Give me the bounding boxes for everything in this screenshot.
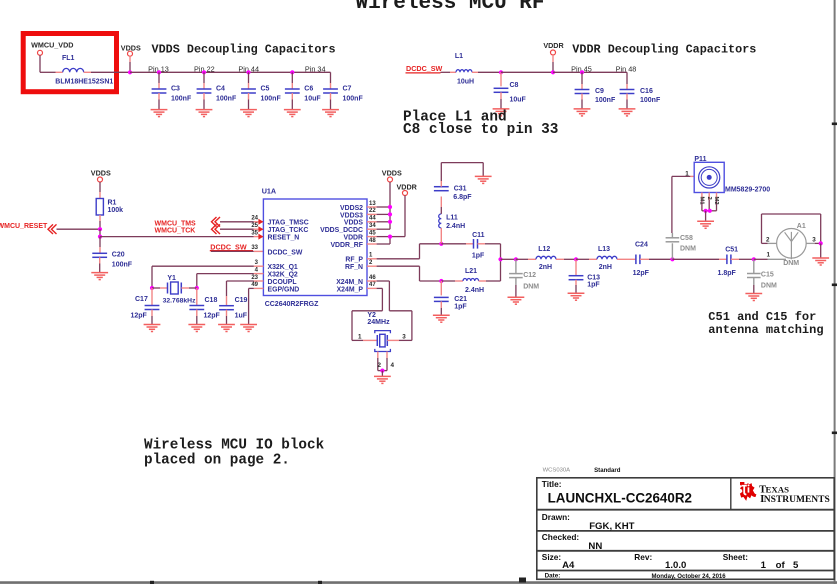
svg-text:L11: L11 <box>446 214 458 221</box>
capacitor C58 DNM <box>666 233 697 259</box>
svg-text:49: 49 <box>251 282 258 288</box>
svg-text:WMCU_RESET: WMCU_RESET <box>0 223 48 230</box>
power symbol VDDS <box>128 51 133 56</box>
svg-text:DCDC_SW: DCDC_SW <box>406 64 443 73</box>
junction VDDR pins <box>388 235 392 239</box>
svg-text:X32K_Q2: X32K_Q2 <box>268 272 298 279</box>
svg-text:C8 close to pin 33: C8 close to pin 33 <box>403 122 558 138</box>
svg-text:Sheet:: Sheet: <box>723 552 748 562</box>
svg-text:C20: C20 <box>112 251 125 258</box>
inductor L12 <box>516 246 564 271</box>
P11 shield pins M1 2 M2 <box>698 193 719 211</box>
svg-text:C18: C18 <box>205 297 218 304</box>
junction balun output <box>498 257 502 261</box>
svg-text:Checked:: Checked: <box>542 532 579 542</box>
svg-text:47: 47 <box>369 282 376 288</box>
junction C58 node <box>670 257 674 261</box>
inductor L1 <box>450 71 456 73</box>
svg-text:2.4nH: 2.4nH <box>465 287 484 294</box>
ground C9 <box>574 109 591 116</box>
svg-text:Monday, October 24, 2016: Monday, October 24, 2016 <box>652 574 727 580</box>
svg-text:2: 2 <box>706 197 712 200</box>
svg-text:C13: C13 <box>587 274 600 281</box>
wire R1 to reset node <box>99 215 101 221</box>
svg-text:Pin 34: Pin 34 <box>305 64 326 73</box>
svg-text:VDDR Decoupling Capacitors: VDDR Decoupling Capacitors <box>572 43 756 57</box>
ground C15 <box>745 294 762 301</box>
svg-text:Pin 48: Pin 48 <box>616 65 637 74</box>
svg-text:C24: C24 <box>635 242 648 249</box>
svg-text:1.0.0: 1.0.0 <box>665 560 686 571</box>
svg-text:LAUNCHXL-CC2640R2: LAUNCHXL-CC2640R2 <box>548 490 692 505</box>
wire P11 shield to ground <box>705 211 707 222</box>
capacitor C31 <box>434 163 472 214</box>
svg-text:Y1: Y1 <box>167 275 176 282</box>
svg-text:4: 4 <box>391 362 395 369</box>
ground EGP/GND <box>240 325 257 332</box>
ground C16 <box>619 109 636 116</box>
junction VDDR rail <box>551 70 555 74</box>
svg-text:100nF: 100nF <box>171 96 192 103</box>
svg-text:DNM: DNM <box>761 282 777 289</box>
border tick marks <box>150 123 837 584</box>
svg-text:Rev:: Rev: <box>634 552 652 562</box>
svg-text:C4: C4 <box>216 86 225 93</box>
svg-text:100nF: 100nF <box>216 96 237 103</box>
svg-text:2: 2 <box>378 362 382 369</box>
junction C8 node <box>499 70 503 74</box>
U1A right pin numbers <box>369 201 376 288</box>
junction antenna pin 3 <box>815 242 821 244</box>
inductor L21 <box>441 268 500 294</box>
junction C13 node <box>574 257 578 261</box>
svg-text:Size:: Size: <box>542 552 561 562</box>
svg-text:EXAS: EXAS <box>766 485 790 495</box>
wire pin 48 <box>367 243 377 245</box>
logo Texas Instruments <box>740 482 830 505</box>
svg-text:10uF: 10uF <box>304 96 321 103</box>
svg-text:DCOUPL: DCOUPL <box>268 279 297 286</box>
title block texts <box>542 479 799 580</box>
svg-text:3: 3 <box>812 236 816 243</box>
svg-text:1: 1 <box>766 252 770 259</box>
svg-text:placed on page 2.: placed on page 2. <box>144 452 290 468</box>
svg-text:VDDR_RF: VDDR_RF <box>330 242 363 249</box>
wire pin row 2 <box>367 221 377 223</box>
inductor L13 <box>576 246 625 271</box>
svg-text:VDDS3: VDDS3 <box>340 212 363 219</box>
wire Y2 case pins <box>377 352 379 359</box>
wire VDDR rail <box>553 71 627 73</box>
antenna pin 2 stub <box>768 242 777 244</box>
wire RF_P to balun <box>367 258 377 260</box>
ground C31 <box>475 176 492 183</box>
svg-text:M2: M2 <box>713 197 719 205</box>
capacitor C12 DNM <box>509 259 539 297</box>
junction balun bottom <box>439 279 443 283</box>
svg-text:WMCU_TCK: WMCU_TCK <box>155 227 196 234</box>
svg-text:2: 2 <box>766 236 770 243</box>
svg-text:Title:: Title: <box>542 479 562 489</box>
svg-text:1pF: 1pF <box>587 281 600 288</box>
svg-text:VDDS: VDDS <box>91 168 111 177</box>
wire C31 to ground <box>441 162 483 164</box>
svg-text:10uF: 10uF <box>510 97 527 104</box>
svg-text:DNM: DNM <box>783 260 799 267</box>
capacitor C15 DNM <box>747 259 777 293</box>
svg-text:1.8pF: 1.8pF <box>718 270 737 277</box>
svg-text:RF_P: RF_P <box>345 257 363 264</box>
antenna A1 DNM <box>777 223 807 267</box>
power symbol VDDR top <box>551 50 556 55</box>
wire C8 node to VDDR node <box>501 71 553 73</box>
crystal Y1 32.768kHz <box>152 275 197 304</box>
ferrite bead FL1 <box>56 71 63 73</box>
junction Y1 left <box>150 286 154 290</box>
svg-text:Wireless MCU IO block: Wireless MCU IO block <box>144 437 325 453</box>
wire WMCU_RESET <box>57 228 101 230</box>
wire pin 3 to Y1 left <box>254 265 264 267</box>
ground antenna <box>812 258 829 265</box>
wire reset node down <box>99 229 101 236</box>
svg-text:100nF: 100nF <box>261 96 282 103</box>
ground C5 <box>240 110 257 117</box>
ground C17 <box>144 325 161 332</box>
red highlight box around FL1 <box>23 34 116 92</box>
connector P11 MM5829-2700 <box>685 156 770 194</box>
wire pin 45 <box>367 236 377 238</box>
wire pin 4 to Y1 right <box>254 273 264 275</box>
svg-text:WCS030A: WCS030A <box>543 468 571 474</box>
ground C4 <box>196 110 213 117</box>
svg-text:C11: C11 <box>472 232 485 239</box>
svg-text:2nH: 2nH <box>539 264 552 271</box>
svg-text:C19: C19 <box>235 297 248 304</box>
capacitor C17 <box>131 288 160 325</box>
capacitor C18 <box>189 288 220 325</box>
offpage arrow WMCU_RESET <box>48 224 57 234</box>
capacitor C6 <box>285 70 321 109</box>
svg-text:C6: C6 <box>304 86 313 93</box>
svg-text:EGP/GND: EGP/GND <box>268 286 300 293</box>
mcu U1A CC2640R2FRGZ <box>262 187 367 308</box>
svg-text:X24M_P: X24M_P <box>337 286 364 293</box>
ground C8 <box>493 109 510 116</box>
svg-text:3: 3 <box>402 334 406 341</box>
svg-text:A4: A4 <box>562 560 575 571</box>
svg-text:M1: M1 <box>698 197 704 206</box>
wire reset to RESET_N pin <box>100 236 254 238</box>
svg-text:P11: P11 <box>694 156 706 163</box>
svg-text:L12: L12 <box>538 246 550 253</box>
svg-text:C9: C9 <box>595 88 604 95</box>
ground C12 <box>508 297 525 304</box>
svg-text:C21: C21 <box>454 296 467 303</box>
svg-text:100nF: 100nF <box>595 97 616 104</box>
svg-text:C51: C51 <box>725 246 738 253</box>
svg-text:Date:: Date: <box>545 572 561 579</box>
svg-text:VDDR: VDDR <box>543 41 564 50</box>
svg-text:C15: C15 <box>761 271 774 278</box>
wire WMCU_TCK to pin 25 <box>220 228 254 230</box>
junction reset node A <box>98 227 102 231</box>
svg-text:L13: L13 <box>598 246 610 253</box>
junction Y2 ground <box>380 369 384 373</box>
capacitor C21 <box>434 281 467 315</box>
svg-text:C7: C7 <box>343 86 352 93</box>
svg-text:1: 1 <box>685 171 689 178</box>
svg-text:24: 24 <box>251 216 258 222</box>
capacitor C19 <box>219 296 248 325</box>
svg-text:C8: C8 <box>510 82 519 89</box>
svg-text:Drawn:: Drawn: <box>542 512 570 522</box>
wire pin row 0 <box>367 206 377 208</box>
svg-text:MM5829-2700: MM5829-2700 <box>725 187 770 194</box>
junction VDDS pins <box>388 205 392 209</box>
wire VDDR vertical <box>404 196 406 237</box>
U1A input arrows JTAG/RESET <box>258 219 263 240</box>
svg-text:VDDS: VDDS <box>344 220 364 227</box>
capacitor C4 <box>197 70 237 109</box>
svg-text:RESET_N: RESET_N <box>268 235 300 242</box>
junction P11 shield B <box>708 209 712 213</box>
svg-text:C51 and C15 for: C51 and C15 for <box>708 310 816 324</box>
offpage arrow WMCU_TMS <box>212 217 221 227</box>
wire DCDC_SW to L1 <box>441 71 451 73</box>
wire balun to C12 node <box>501 258 516 260</box>
wire L1 to C8 node <box>478 71 501 73</box>
junction VDDS rail <box>128 70 132 74</box>
wire balun output <box>500 244 502 281</box>
svg-text:X32K_Q1: X32K_Q1 <box>268 264 298 271</box>
svg-text:of: of <box>776 560 786 571</box>
capacitor C5 <box>241 70 281 109</box>
svg-text:34: 34 <box>369 223 376 229</box>
ground Y2 <box>374 376 391 383</box>
ground P11 <box>697 221 714 228</box>
sheet bottom border <box>0 581 837 584</box>
wire L12 to C13 node <box>564 258 576 260</box>
resistor R1 <box>96 199 123 216</box>
capacitor C51 <box>672 246 753 276</box>
svg-text:6.8pF: 6.8pF <box>453 194 472 201</box>
svg-text:5: 5 <box>793 560 799 571</box>
wire WMCU_VDD to FL1 <box>39 55 41 72</box>
svg-text:CC2640R2FRGZ: CC2640R2FRGZ <box>265 301 319 308</box>
capacitor C9 <box>575 70 616 109</box>
wire pin 23 to C19 <box>254 280 264 282</box>
svg-text:1pF: 1pF <box>472 253 485 260</box>
sheet right border <box>834 0 836 584</box>
svg-text:R1: R1 <box>108 199 117 206</box>
svg-text:C31: C31 <box>454 185 467 192</box>
antenna pin 3 stub <box>806 242 815 244</box>
power symbol VDDS above U1A <box>388 177 393 182</box>
ground C13 <box>568 293 585 300</box>
svg-text:DCDC_SW: DCDC_SW <box>210 242 247 251</box>
svg-text:1: 1 <box>358 334 362 341</box>
wire pin 47 to Y2 <box>367 287 377 289</box>
svg-text:C17: C17 <box>135 296 148 303</box>
svg-text:FL1: FL1 <box>62 55 75 62</box>
svg-text:VDDS Decoupling Capacitors: VDDS Decoupling Capacitors <box>152 43 336 57</box>
junction P11 shield A <box>704 209 708 213</box>
junction Y1 right <box>195 286 199 290</box>
svg-text:JTAG_TCKC: JTAG_TCKC <box>268 227 309 234</box>
junction balun top <box>439 242 443 246</box>
capacitor C13 <box>569 259 601 293</box>
svg-text:A1: A1 <box>797 223 806 230</box>
svg-text:12pF: 12pF <box>204 313 221 320</box>
svg-text:C5: C5 <box>261 86 270 93</box>
svg-text:VDDS_DCDC: VDDS_DCDC <box>320 227 363 234</box>
svg-text:C12: C12 <box>523 272 536 279</box>
wire VDDS vertical <box>389 182 391 229</box>
capacitor C20 <box>92 251 132 272</box>
svg-text:100k: 100k <box>108 207 124 214</box>
svg-text:C3: C3 <box>171 86 180 93</box>
svg-text:33: 33 <box>251 245 258 251</box>
svg-text:46: 46 <box>369 275 376 281</box>
svg-text:NSTRUMENTS: NSTRUMENTS <box>764 495 830 505</box>
ground C3 <box>151 110 168 117</box>
capacitor C24 <box>625 242 672 278</box>
svg-text:45: 45 <box>369 230 376 236</box>
capacitor C3 <box>152 70 192 109</box>
U1A left pin numbers <box>251 216 258 289</box>
junction C12 node <box>514 257 518 261</box>
inductor L11 <box>439 214 465 244</box>
svg-text:48: 48 <box>369 238 376 244</box>
capacitor C11 <box>441 232 500 260</box>
wire C58 to P11 <box>671 176 673 233</box>
wire FL1 to VDDS node <box>91 71 130 73</box>
wire pin row 1 <box>367 213 377 215</box>
svg-text:VDDS2: VDDS2 <box>340 205 363 212</box>
capacitor C16 <box>620 72 661 109</box>
svg-text:WMCU_VDD: WMCU_VDD <box>31 40 73 49</box>
svg-text:X24M_N: X24M_N <box>336 279 363 286</box>
svg-text:1uF: 1uF <box>235 313 248 320</box>
wire pin 46 to Y2 <box>367 280 377 282</box>
wire antenna to ground <box>820 243 822 258</box>
svg-text:U1A: U1A <box>262 187 276 196</box>
ground C19 <box>218 325 235 332</box>
wire pin 49 to ground <box>254 287 264 289</box>
svg-text:23: 23 <box>251 275 258 281</box>
svg-text:L1: L1 <box>455 53 463 60</box>
ground C21 <box>433 315 450 322</box>
wire antenna loop <box>762 242 768 244</box>
svg-text:100nF: 100nF <box>640 97 661 104</box>
U1A right pin names <box>320 205 363 293</box>
ground C6 <box>284 110 301 117</box>
svg-text:100nF: 100nF <box>343 96 364 103</box>
svg-text:C58: C58 <box>680 235 693 242</box>
svg-text:RF_N: RF_N <box>345 264 363 271</box>
svg-text:VDDR: VDDR <box>343 235 363 242</box>
power symbol VDDR above U1A <box>403 191 408 196</box>
svg-text:BLM18HE152SN1: BLM18HE152SN1 <box>55 79 113 86</box>
svg-text:antenna matching: antenna matching <box>708 323 823 337</box>
power symbol VDDS above R1 <box>98 177 103 182</box>
junction C15 node <box>752 257 756 261</box>
svg-text:100nF: 100nF <box>112 262 133 269</box>
svg-text:25: 25 <box>251 223 258 229</box>
svg-text:44: 44 <box>369 216 376 222</box>
svg-text:2.4nH: 2.4nH <box>446 223 465 230</box>
capacitor C7 <box>323 72 363 109</box>
svg-text:DNM: DNM <box>680 245 696 252</box>
wire WMCU_TMS to pin 24 <box>220 221 254 223</box>
wire DCDC_SW to pin 33 <box>211 250 254 252</box>
title block table <box>537 478 834 580</box>
svg-text:12pF: 12pF <box>633 270 650 277</box>
offpage arrow WMCU_TCK <box>212 224 221 234</box>
wire VDDS down to rail <box>129 56 131 62</box>
svg-text:Standard: Standard <box>594 467 621 474</box>
U1A left pin names <box>268 220 309 294</box>
svg-text:1: 1 <box>761 560 767 571</box>
wire pin row 3 <box>367 228 377 230</box>
wire VDDS to R1 <box>99 182 101 192</box>
svg-text:VDDS: VDDS <box>382 169 402 178</box>
svg-text:22: 22 <box>369 208 376 214</box>
svg-text:VDDR: VDDR <box>397 182 418 191</box>
ground C20 <box>91 273 108 280</box>
wire reset node to C20 <box>99 237 101 247</box>
svg-text:L21: L21 <box>465 268 477 275</box>
svg-text:24MHz: 24MHz <box>367 319 390 326</box>
capacitor C8 <box>494 72 527 109</box>
svg-text:DCDC_SW: DCDC_SW <box>268 249 303 256</box>
svg-text:12pF: 12pF <box>131 313 148 320</box>
wire VDDS rail <box>130 71 331 73</box>
svg-text:NN: NN <box>588 541 602 552</box>
svg-text:C16: C16 <box>640 88 653 95</box>
ground C7 <box>322 110 339 117</box>
svg-text:FGK, KHT: FGK, KHT <box>589 521 634 532</box>
svg-text:2nH: 2nH <box>599 264 612 271</box>
crystal Y2 24MHz <box>352 312 412 351</box>
svg-text:Wireless MCU RF: Wireless MCU RF <box>355 0 544 15</box>
svg-text:10uH: 10uH <box>457 79 474 86</box>
svg-text:32.768kHz: 32.768kHz <box>163 297 196 304</box>
wire C15 node to antenna <box>754 258 768 260</box>
ground C18 <box>188 325 205 332</box>
svg-text:13: 13 <box>369 201 376 207</box>
svg-text:35: 35 <box>251 230 258 236</box>
wire RF_N to balun <box>367 265 377 267</box>
svg-text:DNM: DNM <box>523 284 539 291</box>
svg-text:VDDS: VDDS <box>121 44 141 53</box>
power symbol WMCU_VDD <box>38 50 43 55</box>
svg-text:JTAG_TMSC: JTAG_TMSC <box>268 220 309 227</box>
svg-text:1pF: 1pF <box>454 304 467 311</box>
junction reset node B <box>98 235 102 239</box>
